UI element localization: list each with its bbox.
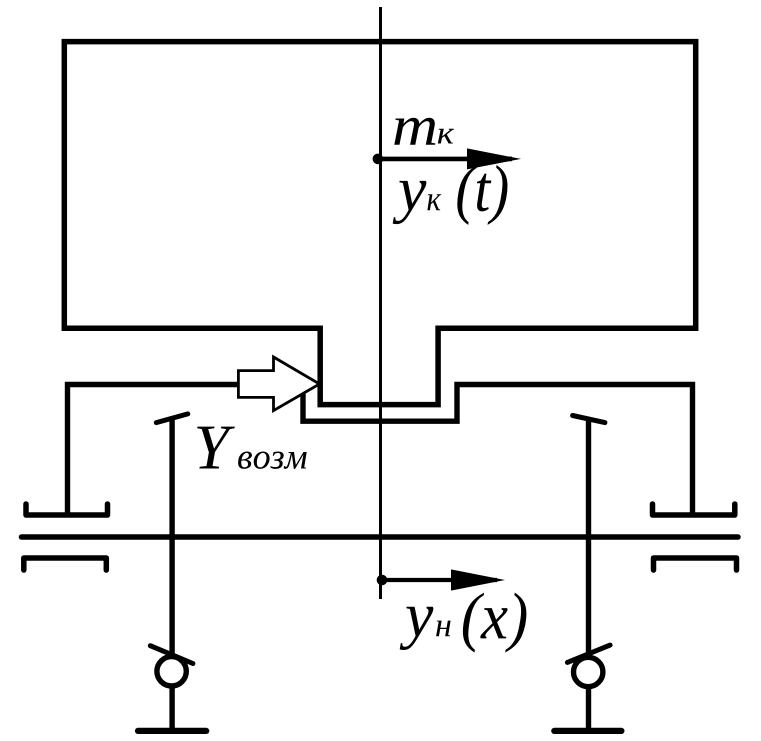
right lower bracket (cap) — [654, 558, 737, 570]
left isolator ground bar — [138, 728, 206, 734]
left isolator circle — [157, 657, 186, 686]
centerline (vertical axis) — [379, 7, 382, 599]
right isolator lower rod — [586, 687, 591, 731]
node dot on axis (upper, mass centre) — [373, 154, 384, 165]
foundation outline (with central groove) — [68, 385, 693, 515]
right upper bracket (cup) — [653, 504, 735, 515]
lower arrow head — [451, 569, 505, 590]
left isolator lower rod — [169, 686, 174, 731]
left isolator top tick — [156, 414, 188, 423]
label y_k(t) : y — [393, 181, 427, 224]
upper arrow head — [467, 148, 521, 169]
right isolator top tick — [573, 416, 605, 423]
left isolator upper rod — [169, 419, 174, 657]
label y_n(x) : (x) — [463, 593, 527, 653]
right isolator upper rod — [586, 417, 591, 657]
machine mass m_k outline (with central tongue) — [64, 42, 695, 405]
right isolator slash — [567, 645, 610, 662]
label Y_vozm : subscript vozm — [238, 452, 307, 469]
label Y_vozm : Y — [197, 427, 235, 469]
label y_k(t) : (t) — [457, 165, 507, 225]
right isolator circle — [574, 657, 603, 686]
label m_k : subscript k — [438, 129, 454, 144]
label y_n(x) : subscript n — [436, 621, 451, 637]
right isolator ground bar — [554, 728, 621, 734]
label y_n(x) : y — [400, 607, 434, 650]
base line (long horizontal) — [22, 534, 739, 540]
left isolator slash — [150, 646, 193, 664]
lower arrow shaft y_n direction — [382, 578, 497, 582]
label y_k(t) : subscript k — [427, 194, 441, 210]
upper arrow shaft y_k direction — [378, 157, 512, 162]
label m_k : m — [394, 118, 435, 145]
left lower bracket (cap) — [24, 558, 107, 570]
node dot on axis (lower, foundation point) — [377, 575, 388, 586]
excitation block arrow (hollow) — [238, 357, 319, 411]
left upper bracket (cup) — [26, 504, 108, 515]
